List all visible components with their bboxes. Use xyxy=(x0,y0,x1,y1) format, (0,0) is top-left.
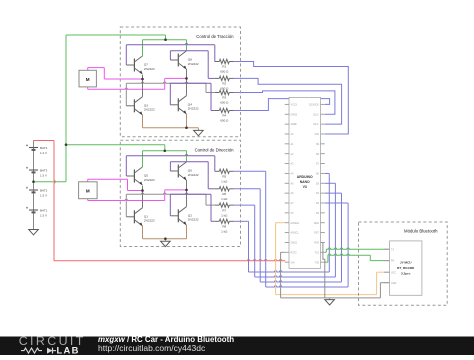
svg-text:RST2: RST2 xyxy=(291,251,298,254)
svg-text:600 Ω: 600 Ω xyxy=(220,70,229,74)
svg-text:Control de Dirección: Control de Dirección xyxy=(195,148,235,153)
svg-text:5V: 5V xyxy=(291,212,294,215)
svg-text:2N2222: 2N2222 xyxy=(188,107,199,111)
svg-text:R7: R7 xyxy=(222,208,226,212)
svg-text:A4/SDA: A4/SDA xyxy=(291,222,300,225)
svg-text:2N2222: 2N2222 xyxy=(188,62,199,66)
svg-text:GND: GND xyxy=(391,282,397,285)
svg-text:M: M xyxy=(86,189,90,194)
svg-text:1.5 V: 1.5 V xyxy=(40,193,47,197)
svg-text:R1: R1 xyxy=(222,65,226,69)
svg-text:1 kΩ: 1 kΩ xyxy=(221,197,228,201)
svg-text:R5: R5 xyxy=(222,175,226,179)
svg-text:600 Ω: 600 Ω xyxy=(220,119,229,123)
svg-text:VCC3: VCC3 xyxy=(291,104,298,107)
svg-text:GND1: GND1 xyxy=(291,242,298,245)
svg-text:LAB: LAB xyxy=(57,345,80,355)
svg-text:D12/.: D12/. xyxy=(313,113,319,116)
svg-text:600 Ω: 600 Ω xyxy=(220,101,229,105)
svg-text:D11/.: D11/. xyxy=(313,123,319,126)
svg-text:2N2222: 2N2222 xyxy=(188,173,199,177)
svg-text:http://circuitlab.com/cy443dc: http://circuitlab.com/cy443dc xyxy=(98,343,206,353)
svg-text:RX: RX xyxy=(391,260,395,263)
svg-text:TX: TX xyxy=(391,248,394,251)
svg-text:VIN: VIN xyxy=(291,261,295,264)
svg-text:RX0: RX0 xyxy=(314,242,319,245)
svg-text:GND2: GND2 xyxy=(291,113,298,116)
svg-text:BAT4: BAT4 xyxy=(40,146,48,150)
svg-text:V3: V3 xyxy=(303,185,307,189)
svg-text:TX1: TX1 xyxy=(315,251,320,254)
svg-text:D13/SCK: D13/SCK xyxy=(309,104,319,107)
svg-text:1 kΩ: 1 kΩ xyxy=(221,180,228,184)
svg-text:D10: D10 xyxy=(315,133,320,136)
svg-text:1.5 V: 1.5 V xyxy=(40,173,47,177)
svg-text:1.5 V: 1.5 V xyxy=(40,213,47,217)
svg-text:3.2pro: 3.2pro xyxy=(401,272,410,276)
svg-text:VCC: VCC xyxy=(391,271,396,274)
svg-text:TX0: TX0 xyxy=(315,261,320,264)
svg-text:BAT3: BAT3 xyxy=(40,169,48,173)
svg-text:R3: R3 xyxy=(222,96,226,100)
svg-text:JY-MCU: JY-MCU xyxy=(400,260,412,264)
svg-text:BAT1: BAT1 xyxy=(40,209,48,213)
svg-text:M: M xyxy=(86,77,90,82)
svg-text:2N2222: 2N2222 xyxy=(144,108,155,112)
svg-text:1.2 V: 1.2 V xyxy=(40,151,47,155)
svg-text:NANO: NANO xyxy=(300,180,310,184)
svg-text:600 Ω: 600 Ω xyxy=(220,87,229,91)
svg-text:R6: R6 xyxy=(222,192,226,196)
svg-text:R2: R2 xyxy=(222,82,226,86)
svg-text:AREF: AREF xyxy=(291,123,298,126)
svg-text:R4: R4 xyxy=(222,114,226,118)
svg-text:2N2222: 2N2222 xyxy=(144,178,155,182)
svg-text:BAT2: BAT2 xyxy=(40,189,48,193)
svg-text:Módulo Bluetooth: Módulo Bluetooth xyxy=(404,229,438,234)
svg-text:ARDUINO: ARDUINO xyxy=(297,175,313,179)
svg-text:GND: GND xyxy=(314,222,320,225)
svg-text:2N2222: 2N2222 xyxy=(188,218,199,222)
svg-text:1 kΩ: 1 kΩ xyxy=(221,213,228,217)
svg-text:RST: RST xyxy=(314,232,319,235)
svg-text:Control de Tracción: Control de Tracción xyxy=(196,34,234,39)
svg-text:1 kΩ: 1 kΩ xyxy=(221,230,228,234)
svg-text:A5/SCL: A5/SCL xyxy=(291,232,300,235)
svg-text:2N2222: 2N2222 xyxy=(144,67,155,71)
svg-text:BT_BOARD: BT_BOARD xyxy=(397,266,415,270)
svg-text:2N2222: 2N2222 xyxy=(144,219,155,223)
svg-text:R8: R8 xyxy=(222,225,226,229)
